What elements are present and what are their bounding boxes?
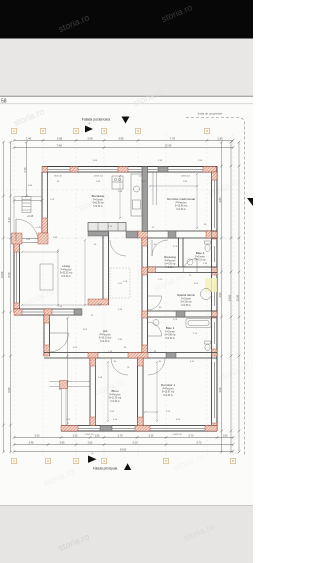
hol west pier bottom xyxy=(44,345,50,356)
tech door leaf xyxy=(148,295,162,297)
entry door arc xyxy=(16,219,38,241)
svg-text:Bucatarie: Bucatarie xyxy=(92,194,105,198)
kitchen cap seg xyxy=(126,231,138,238)
room label Dressing xyxy=(164,255,176,269)
svg-text:P=Parchet: P=Parchet xyxy=(110,394,121,397)
bottom wall pier SE xyxy=(205,426,217,432)
svg-text:24.06: 24.06 xyxy=(120,448,127,451)
grid bubble 6 bottom xyxy=(230,458,235,463)
svg-text:3.40: 3.40 xyxy=(26,136,32,140)
svg-text:Baie 2: Baie 2 xyxy=(196,251,205,255)
svg-text:12.55: 12.55 xyxy=(165,143,172,147)
left wall pier top xyxy=(14,238,20,252)
bottom triangle up xyxy=(124,463,131,470)
room label Dormitor matrimonial xyxy=(167,197,195,211)
bath2 sink xyxy=(187,259,193,265)
bath2 toilet xyxy=(205,241,211,251)
rear door leaf xyxy=(50,332,69,334)
office door arc xyxy=(111,358,128,375)
right wall pier xyxy=(212,311,218,318)
room label Bucatarie xyxy=(92,194,105,208)
room label Baie 2 xyxy=(194,251,206,262)
svg-text:S=4.10 mp: S=4.10 mp xyxy=(194,260,206,262)
grid bubble 3 top xyxy=(73,128,78,133)
technical room door arc xyxy=(148,296,162,310)
page background xyxy=(0,0,253,563)
svg-text:3.08: 3.08 xyxy=(87,136,93,140)
svg-text:P=Gresie: P=Gresie xyxy=(165,331,175,334)
grid bubble 5 bottom xyxy=(163,458,168,463)
right dimension lines xyxy=(218,141,241,454)
svg-text:Hol: Hol xyxy=(103,329,108,333)
kitchen-dressing pier xyxy=(138,231,148,238)
svg-text:S=5.50 mp: S=5.50 mp xyxy=(180,302,192,304)
hall south pier xyxy=(88,353,98,359)
porch pier west xyxy=(12,233,23,244)
left dimension lines xyxy=(0,141,12,454)
office bedroom divider wall xyxy=(138,358,144,426)
svg-text:h=2.60 m: h=2.60 m xyxy=(110,401,120,403)
tech south seg xyxy=(176,311,185,317)
svg-text:14.60: 14.60 xyxy=(0,271,4,278)
svg-text:S=11.35 mp: S=11.35 mp xyxy=(109,398,122,400)
boiler technical room xyxy=(201,289,212,300)
top wall pier at axis 2 xyxy=(42,167,48,173)
bottom dimension line 3 xyxy=(13,448,235,453)
bottom wall pier xyxy=(100,426,112,432)
bedroom 1 window east xyxy=(212,362,218,418)
svg-text:P=Gresie: P=Gresie xyxy=(93,199,103,202)
svg-text:3.85: 3.85 xyxy=(218,197,222,203)
corridor door arc A xyxy=(110,240,126,256)
svg-text:90/1.40: 90/1.40 xyxy=(54,176,62,178)
room label Birou xyxy=(109,389,122,403)
svg-text:1.55: 1.55 xyxy=(95,434,100,437)
svg-text:h=2.60 m: h=2.60 m xyxy=(93,206,103,208)
living south pier 1 xyxy=(14,309,22,315)
porch pier east xyxy=(38,233,48,244)
svg-text:S=32.52 mp: S=32.52 mp xyxy=(60,273,73,275)
structural axis grid (dashed) xyxy=(6,134,242,456)
grid bubble 2 top xyxy=(40,128,45,133)
bath1 door leaf xyxy=(148,335,162,337)
room label Baie 1 xyxy=(164,326,176,340)
office door leaf xyxy=(111,357,128,359)
master bedroom south wall xyxy=(148,231,218,238)
dressing bath2 divider xyxy=(179,238,184,267)
bedroom 1 door leaf xyxy=(148,357,165,359)
left exterior wall living xyxy=(14,238,20,312)
dressing south pier xyxy=(148,267,156,273)
porch top dim line xyxy=(13,199,44,202)
right wall corner pier SE xyxy=(212,423,218,431)
office west pier top xyxy=(90,358,96,366)
svg-text:limita de proprietate: limita de proprietate xyxy=(198,112,223,116)
svg-text:14.60: 14.60 xyxy=(227,294,231,301)
svg-text:2.40/1.40: 2.40/1.40 xyxy=(172,434,182,436)
hol west pier top xyxy=(44,315,50,323)
svg-text:4.10: 4.10 xyxy=(7,217,11,223)
svg-text:6.95: 6.95 xyxy=(7,387,11,393)
bottom wall pier xyxy=(135,426,150,432)
grid bubble 1 bottom xyxy=(11,458,16,463)
svg-text:3.25: 3.25 xyxy=(149,434,154,437)
svg-text:S=10.10 mp: S=10.10 mp xyxy=(99,338,112,340)
bath 1 door arc xyxy=(148,322,162,336)
svg-text:h=2.55 m: h=2.55 m xyxy=(181,305,191,307)
office window south xyxy=(78,426,100,432)
living south window xyxy=(22,309,44,315)
svg-text:S=4.96 mp: S=4.96 mp xyxy=(164,335,176,337)
porch outline xyxy=(14,197,42,239)
grid bubble 3 bottom xyxy=(73,458,78,463)
bath2 door leaf xyxy=(196,259,198,273)
svg-text:5.70: 5.70 xyxy=(189,434,194,437)
svg-text:1.20/1.40: 1.20/1.40 xyxy=(84,434,94,436)
bedroom 1 window south xyxy=(150,426,205,432)
divider pier top xyxy=(138,358,144,366)
svg-text:P=Parchet: P=Parchet xyxy=(100,334,111,337)
bedroom 1 door arc xyxy=(148,358,165,375)
svg-text:h=2.60 m: h=2.60 m xyxy=(176,209,186,211)
living south pier 3 xyxy=(74,309,82,315)
terrace pier xyxy=(60,381,68,389)
svg-text:h=2.60 m: h=2.60 m xyxy=(61,276,71,278)
separator line xyxy=(0,95,253,97)
svg-text:Dressing: Dressing xyxy=(164,255,176,259)
top wall pier xyxy=(158,167,168,173)
svg-text:S=4.50 mp: S=4.50 mp xyxy=(164,264,176,266)
svg-text:P=Parchet: P=Parchet xyxy=(165,260,176,263)
rear door arc xyxy=(50,333,69,352)
corridor east wall xyxy=(142,238,148,353)
grid bubble 6 top xyxy=(204,128,209,133)
living window west xyxy=(14,252,20,303)
faint second line xyxy=(0,103,253,105)
hall south pier right xyxy=(166,353,176,359)
technical room window east xyxy=(212,285,218,306)
bath1 sink xyxy=(153,320,159,326)
svg-text:P=Parchet: P=Parchet xyxy=(61,269,72,272)
svg-text:Birou: Birou xyxy=(111,389,118,393)
svg-text:P=Gresie: P=Gresie xyxy=(195,256,205,259)
svg-text:2.70: 2.70 xyxy=(24,167,27,172)
bottom separator line xyxy=(0,505,253,507)
top wall pier xyxy=(70,167,78,173)
top wall pier at axis 4 xyxy=(118,167,128,173)
north window 3 xyxy=(128,167,158,173)
svg-text:1.80/1.40: 1.80/1.40 xyxy=(180,176,190,178)
svg-text:7.48: 7.48 xyxy=(56,143,62,147)
bath1 toilet xyxy=(205,341,211,351)
bath 2 door arc xyxy=(183,259,197,273)
hol west wall xyxy=(44,315,50,356)
upper gray band xyxy=(0,39,253,97)
svg-text:3.70: 3.70 xyxy=(118,434,123,437)
svg-text:2.60: 2.60 xyxy=(218,292,222,298)
top wall corner pier NE xyxy=(203,167,217,173)
svg-text:Baie 1: Baie 1 xyxy=(166,326,175,330)
svg-text:Fatada principala: Fatada principala xyxy=(93,467,118,471)
living hall divider wall xyxy=(103,232,109,305)
kitchen bedroom divider wall xyxy=(142,167,148,232)
top exterior wall xyxy=(42,167,217,173)
entry steps xyxy=(22,197,31,213)
facade marker left-pointing (right edge) xyxy=(247,198,253,206)
top dimension line 1 xyxy=(13,136,235,142)
dressing door leaf xyxy=(151,240,153,256)
right wall pier xyxy=(212,267,218,275)
grid bubble 2 bottom xyxy=(45,458,50,463)
south window small xyxy=(112,426,135,432)
dining window north xyxy=(78,167,118,173)
svg-text:3.68: 3.68 xyxy=(57,136,63,140)
dressing door arc B xyxy=(152,240,168,256)
living south wall xyxy=(14,309,82,315)
svg-text:Dormitor matrimonial: Dormitor matrimonial xyxy=(167,197,195,201)
svg-text:P=Gresie: P=Gresie xyxy=(181,298,191,301)
grid bubble 1 top xyxy=(11,128,16,133)
living table xyxy=(40,264,53,290)
svg-text:3.85: 3.85 xyxy=(118,136,124,140)
grid bubble 4 top xyxy=(101,128,106,133)
dressing south wall xyxy=(148,267,218,273)
bath 2 window east xyxy=(212,246,218,262)
yellow highlighted wall segment xyxy=(205,278,217,292)
right wall pier top xyxy=(212,172,218,180)
bath1 tub xyxy=(186,319,211,328)
porch wall pier xyxy=(42,218,48,233)
svg-text:S=15.96 mp: S=15.96 mp xyxy=(175,206,188,208)
svg-text:+0.45: +0.45 xyxy=(35,227,41,229)
svg-text:2.83: 2.83 xyxy=(88,441,93,444)
corridor east pier 1 xyxy=(142,238,148,246)
svg-text:7.70: 7.70 xyxy=(170,136,176,140)
divider bottom cap xyxy=(88,299,109,305)
svg-text:h=2.60 m: h=2.60 m xyxy=(165,267,175,269)
grid bubble 5 top xyxy=(135,128,140,133)
kitchen window north xyxy=(48,167,71,173)
right wall pier xyxy=(212,349,218,356)
triangle marker down xyxy=(122,117,130,124)
master south seg xyxy=(168,231,176,238)
terrace dimension line xyxy=(66,317,69,426)
bottom wall pier SW xyxy=(61,426,78,432)
svg-text:Spatiul tehnic: Spatiul tehnic xyxy=(177,293,196,297)
divider top cap xyxy=(88,230,109,236)
corridor east pier 4 xyxy=(142,345,148,353)
bottom triangle right xyxy=(88,456,97,463)
porch north wall xyxy=(42,172,48,238)
svg-text:6.73: 6.73 xyxy=(197,441,202,444)
svg-text:3.25: 3.25 xyxy=(73,434,78,437)
svg-text:2.85: 2.85 xyxy=(60,441,65,444)
corridor east pier 2 xyxy=(142,267,148,275)
hall south pier mid xyxy=(128,353,148,359)
right wall pier xyxy=(212,231,218,239)
svg-text:1.80/1.40: 1.80/1.40 xyxy=(93,176,103,178)
watermarks storia.ro xyxy=(12,2,251,553)
triangle marker right xyxy=(85,126,93,133)
room label Hol xyxy=(99,329,112,343)
corridor east pier 3 xyxy=(142,311,148,318)
hall south wall xyxy=(44,353,217,359)
svg-text:15.80: 15.80 xyxy=(235,294,239,301)
room label Dormitor 1 xyxy=(161,383,175,397)
master bedroom wardrobe xyxy=(153,172,157,205)
bottom dimension line 2 xyxy=(13,441,235,446)
svg-text:h=2.60 m: h=2.60 m xyxy=(100,341,110,343)
svg-text:5.30: 5.30 xyxy=(35,434,40,437)
svg-text:P=Parchet: P=Parchet xyxy=(163,388,174,391)
master bedroom window east xyxy=(212,180,218,228)
office west pier bottom xyxy=(90,417,96,426)
living south pier 2 xyxy=(44,309,52,315)
svg-text:S=9.35 mp: S=9.35 mp xyxy=(92,203,104,205)
technical room south wall xyxy=(148,311,218,317)
porch dimension line xyxy=(24,141,28,198)
office west wall xyxy=(90,358,96,426)
bottom dimension line 1 xyxy=(13,434,235,439)
svg-text:1.80: 1.80 xyxy=(223,434,228,437)
svg-text:S=13.87 mp: S=13.87 mp xyxy=(162,392,175,394)
svg-text:Living: Living xyxy=(62,264,70,268)
interior dimension texts xyxy=(26,160,208,421)
bottom exterior wall xyxy=(61,426,217,432)
bedroom window north xyxy=(168,167,203,173)
entry threshold xyxy=(22,239,38,243)
svg-text:58: 58 xyxy=(1,99,7,105)
svg-text:P=Parchet: P=Parchet xyxy=(176,202,187,205)
kitchen appliance xyxy=(112,176,123,189)
svg-text:3.48: 3.48 xyxy=(29,441,34,444)
bath 1 window east xyxy=(212,322,218,344)
property boundary dashed xyxy=(186,118,245,457)
svg-text:6.20: 6.20 xyxy=(133,441,138,444)
svg-text:+0.45: +0.45 xyxy=(27,215,34,218)
kitchen counter xyxy=(131,174,142,216)
grid bubble 4 bottom xyxy=(101,458,106,463)
entry door leaf xyxy=(15,219,17,241)
lower gray band xyxy=(0,506,253,563)
divider pier bottom xyxy=(138,417,144,426)
left wall pier bottom xyxy=(14,303,20,312)
right exterior wall xyxy=(212,167,218,432)
black top bar xyxy=(0,0,253,39)
master south pier right xyxy=(206,231,212,238)
corridor dashed opening xyxy=(110,268,130,298)
svg-text:h=2.60 m: h=2.60 m xyxy=(165,338,175,340)
room label Living xyxy=(60,264,73,278)
interior room dimension lines xyxy=(21,173,198,422)
svg-text:8.30: 8.30 xyxy=(7,272,11,278)
top dimension line 2 xyxy=(13,143,235,149)
svg-text:2.90: 2.90 xyxy=(217,136,223,140)
kitchen island xyxy=(88,223,126,232)
svg-text:Fatada posterioara: Fatada posterioara xyxy=(82,118,111,122)
svg-text:4.35: 4.35 xyxy=(218,387,222,393)
room label Spatiul tehnic xyxy=(177,293,196,307)
svg-text:Dormitor 1: Dormitor 1 xyxy=(161,383,175,387)
terrace edge lines xyxy=(50,382,91,426)
svg-text:h=2.60 m: h=2.60 m xyxy=(163,395,173,397)
